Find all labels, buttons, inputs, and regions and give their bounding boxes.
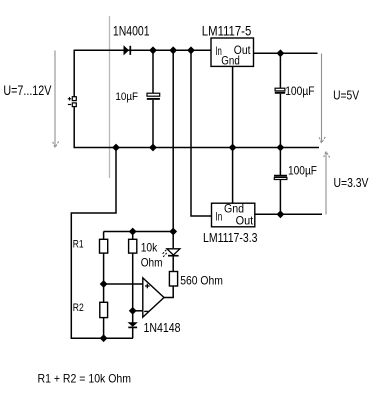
node dot: top rail / 10uF [149,46,157,54]
svg-text:Gnd: Gnd [224,204,244,216]
wire: 3.3V output rail [255,213,322,215]
wire: op-amp output [164,286,173,298]
node dot: lower rail / LED branch [169,228,177,236]
wire: left rail lower [73,107,75,149]
gray separator line [109,16,111,178]
wire: input branch down to LM1117-3.3 [191,50,212,216]
capacitor C3 100uF (3.3V) [279,148,281,176]
U=5V arrow [319,54,325,144]
node dot: gnd rail / 10uF [149,144,157,152]
capacitor C2 100uF [279,53,281,88]
resistor R4 560 Ohm [169,272,177,287]
svg-text:LM1117-5: LM1117-5 [202,24,252,39]
svg-text:R1: R1 [73,239,84,251]
node dot: top rail / 3.3 in branch [187,46,195,54]
regulator U2 LM1117-3.3 box [212,203,255,227]
svg-text:R1 + R2 = 10k Ohm: R1 + R2 = 10k Ohm [38,372,132,386]
wire: top input rail [74,49,211,51]
node dot: gnd rail / regulator gnd [229,144,237,152]
minus sign [68,104,71,106]
wire: lower circuit ground branch [71,148,133,339]
svg-text:560 Ohm: 560 Ohm [180,274,223,288]
+ input mark [145,284,150,289]
svg-text:Out: Out [236,216,254,228]
input voltage arrow U=7...12V [53,51,59,148]
resistor R3 10k [132,232,134,240]
node dot: R1/R2 divider [100,280,108,288]
battery terminal squares [72,97,76,101]
svg-text:1N4001: 1N4001 [113,24,150,39]
svg-text:Ohm: Ohm [141,256,163,270]
wire: left rail upper (to battery terminal) [73,50,75,97]
wire: - input [133,310,143,312]
U=3.3V arrow [324,151,330,214]
svg-text:100µF: 100µF [285,84,314,98]
node dot: 5V rail / 100uF [277,49,285,57]
capacitor C1 10uF [152,50,154,93]
node dot: 3.3V rail / 100uF [277,210,285,218]
node dot: top rail / lower branch [169,46,177,54]
diode D2 1N4148 [132,311,134,323]
LED arrows [162,250,167,257]
wire: + input [104,283,143,285]
node dot: gnd rail / 100uF caps [277,144,285,152]
svg-text:10k: 10k [141,241,158,255]
regulator U1 LM1117-5 box [211,38,254,66]
node dot: - input node [129,307,137,315]
diode D1 1N4001 [124,46,129,55]
svg-text:LM1117-3.3: LM1117-3.3 [203,230,258,245]
- input mark [144,310,148,312]
svg-text:R2: R2 [73,302,84,314]
node dot: R2 bottom [100,334,108,342]
LED D3 [172,232,174,249]
svg-text:1N4148: 1N4148 [144,321,181,335]
svg-text:U=5V: U=5V [333,88,360,102]
plus sign [68,97,71,100]
node dot: lower rail / 10k [129,228,137,236]
wire: lower circuit top rail [104,231,174,233]
svg-text:10µF: 10µF [115,91,138,103]
svg-text:100µF: 100µF [288,164,317,178]
svg-text:U=7...12V: U=7...12V [3,82,52,98]
wire: 5V output rail [254,52,318,54]
svg-text:Gnd: Gnd [221,55,240,67]
resistor R1 [103,232,105,240]
wire: regulators gnd vertical [232,66,234,203]
op-amp comparator [143,278,164,317]
svg-text:In: In [216,212,223,224]
resistor R2 [103,284,105,302]
svg-text:U=3.3V: U=3.3V [334,176,370,190]
wire: input branch down to lower circuit [172,50,174,231]
wire: ground rail [74,147,319,149]
node dot: gnd rail / lower circuit [112,144,120,152]
